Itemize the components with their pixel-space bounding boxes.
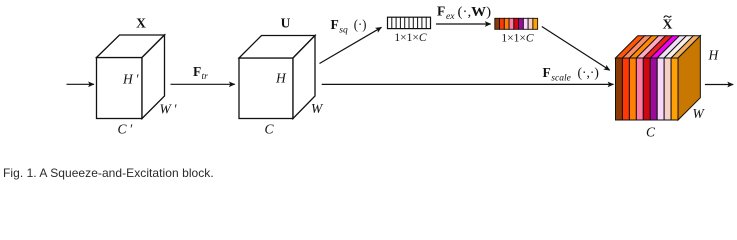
svg-text:(·,·): (·,·) [578, 65, 599, 80]
cube U top face [239, 36, 315, 59]
label Ftr [193, 64, 208, 82]
svg-text:(·,W): (·,W) [458, 4, 492, 19]
label H cube Xtilde [708, 48, 720, 63]
label Fsq [331, 17, 367, 36]
figure caption [3, 166, 214, 180]
svg-text:F: F [437, 4, 445, 19]
cube U right face [293, 36, 315, 119]
svg-text:1×1×C: 1×1×C [501, 32, 533, 44]
svg-text:scale: scale [551, 73, 571, 83]
svg-text:(·): (·) [354, 17, 367, 32]
svg-text:W: W [311, 101, 324, 116]
input arrow [67, 83, 95, 85]
svg-text:C ′: C ′ [118, 121, 134, 136]
svg-text:U: U [281, 15, 291, 30]
label W' [160, 101, 178, 116]
cube Xtilde right face [678, 36, 700, 120]
Fscale arrow [322, 83, 614, 85]
label H [275, 71, 287, 86]
svg-text:F: F [331, 17, 339, 32]
svg-text:F: F [543, 65, 551, 80]
Fex arrow [436, 23, 491, 25]
cube X front face [97, 58, 143, 119]
squeeze vector bar 1x1xC [388, 17, 431, 28]
svg-text:W ′: W ′ [160, 101, 178, 116]
output arrow [705, 84, 733, 86]
svg-text:1×1×C: 1×1×C [394, 32, 426, 44]
label Fscale [543, 65, 599, 83]
label Fex [437, 4, 491, 22]
svg-text:C: C [265, 121, 275, 136]
excitation vector bar colored [495, 18, 538, 29]
label C' [118, 121, 134, 136]
cube U front face [239, 58, 293, 119]
label C cube U [265, 121, 275, 136]
label 1x1xC excitation [501, 32, 533, 44]
svg-text:tr: tr [202, 72, 209, 82]
label U [281, 15, 291, 30]
svg-text:X: X [136, 15, 146, 30]
svg-text:ex: ex [446, 12, 455, 22]
label H' [122, 72, 139, 87]
svg-text:C: C [646, 124, 656, 139]
cube Xtilde top face strips [616, 36, 701, 58]
svg-text:sq: sq [339, 26, 348, 36]
svg-text:F: F [193, 64, 201, 79]
label 1x1xC squeeze [394, 32, 426, 44]
label W cube U [311, 101, 324, 116]
label X [136, 15, 146, 30]
svg-text:H ′: H ′ [122, 72, 139, 87]
label W cube Xtilde [693, 106, 706, 121]
svg-text:H: H [708, 48, 720, 63]
svg-text:X: X [663, 16, 673, 31]
svg-text:W: W [693, 106, 706, 121]
cube X right face [142, 35, 165, 119]
cube Xtilde front face slices [616, 58, 679, 120]
scale diagonal arrow [542, 27, 610, 71]
Fsq arrow [320, 27, 382, 63]
svg-text:H: H [275, 71, 287, 86]
cube X top face [97, 35, 165, 58]
label Xtilde [663, 16, 673, 31]
label C cube Xtilde [646, 124, 656, 139]
Ftr arrow [171, 83, 235, 85]
